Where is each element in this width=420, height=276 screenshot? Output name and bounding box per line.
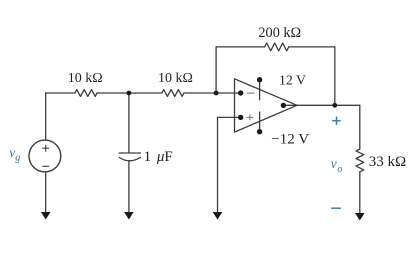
wire input top-left horizontal xyxy=(46,92,75,94)
wire between R1 and node A xyxy=(97,92,162,94)
op-amp noninverting input terminal dot xyxy=(238,115,243,120)
wire source to ground xyxy=(45,172,47,213)
resistor R1 10k zigzag xyxy=(75,90,97,97)
capacitor C1 top plate xyxy=(119,152,140,154)
wire feedback vertical right xyxy=(334,47,336,105)
op-amp output terminal dot xyxy=(281,103,286,108)
op-amp inverting sign xyxy=(247,93,255,120)
svg-text:vg: vg xyxy=(9,145,20,164)
wire capacitor branch upper xyxy=(128,93,130,153)
op-amp negative supply pin xyxy=(259,112,261,132)
ground arrow RL branch xyxy=(355,213,365,221)
wire RL to ground xyxy=(359,172,361,215)
op-amp output lead xyxy=(283,104,297,106)
svg-text:12 V: 12 V xyxy=(279,73,306,88)
svg-text:vo: vo xyxy=(331,156,343,175)
svg-text:10 kΩ: 10 kΩ xyxy=(158,71,193,86)
svg-text:33 kΩ: 33 kΩ xyxy=(369,154,406,170)
capacitor C1 curved plate xyxy=(119,157,140,160)
ground arrow source branch xyxy=(41,212,51,220)
op-amp positive supply pin xyxy=(259,80,261,100)
svg-text:200 kΩ: 200 kΩ xyxy=(258,25,301,41)
wire output vertical to RL xyxy=(359,105,361,149)
resistor R2 10k zigzag xyxy=(162,90,184,97)
wire noninverting input horizontal xyxy=(218,116,241,118)
label output polarity minus xyxy=(331,207,341,209)
wire noninverting to ground xyxy=(217,117,219,213)
source vg minus sign xyxy=(42,165,49,167)
op-amp inverting input terminal dot xyxy=(238,90,243,95)
source vg plus sign xyxy=(42,145,49,167)
wire capacitor to ground xyxy=(128,161,130,214)
source vg circle xyxy=(29,140,61,172)
resistor RL 33k vertical zigzag xyxy=(356,149,364,172)
wire left branch vertical to source xyxy=(45,93,47,140)
op-amp negative supply terminal dot xyxy=(257,129,262,134)
ground arrow capacitor branch xyxy=(124,212,134,220)
wire feedback top right xyxy=(289,46,335,48)
op-amp U1 triangle xyxy=(235,79,298,132)
wire R2 to inverting input xyxy=(184,92,241,94)
node B feedback junction dot xyxy=(214,91,219,96)
node output junction dot xyxy=(332,103,337,108)
svg-text:10 kΩ: 10 kΩ xyxy=(68,71,103,86)
svg-text:1 μF: 1 μF xyxy=(144,149,173,165)
svg-text:−12 V: −12 V xyxy=(271,132,309,148)
wire feedback vertical left xyxy=(215,47,217,93)
wire feedback top left xyxy=(216,46,265,48)
resistor Rf 200k zigzag xyxy=(265,43,289,51)
op-amp positive supply terminal dot xyxy=(257,77,262,82)
op-amp noninverting sign xyxy=(247,116,254,118)
ground arrow noninverting branch xyxy=(213,212,223,220)
node A junction dot xyxy=(126,91,131,96)
wire output horizontal xyxy=(297,104,360,106)
label output polarity plus xyxy=(332,117,341,125)
